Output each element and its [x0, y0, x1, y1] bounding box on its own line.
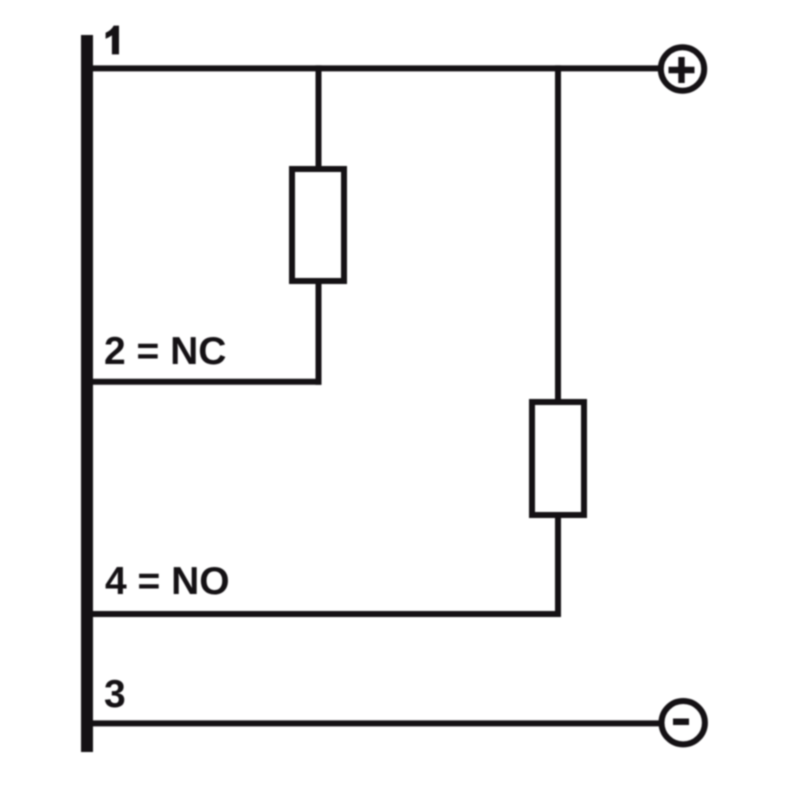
- wire junction pin1 line to NO load resistor: [555, 65, 561, 399]
- terminal strip bar: [81, 35, 93, 752]
- svg-text:2 = NC: 2 = NC: [104, 330, 226, 373]
- pin label 2 = NC: [104, 330, 226, 373]
- wire pin2: [93, 379, 322, 385]
- pin label 1: [106, 26, 119, 55]
- minus supply terminal: [662, 701, 705, 744]
- wire pin1 to plus terminal: [93, 65, 659, 71]
- svg-text:4 = NO: 4 = NO: [105, 560, 230, 603]
- plus supply terminal: [661, 47, 704, 90]
- load resistor NO branch: [532, 402, 584, 515]
- wire junction pin1 line to NC load resistor: [316, 65, 322, 166]
- pin label 4 = NO: [105, 560, 230, 603]
- pin label 3: [104, 673, 126, 716]
- wire NC resistor to pin2 line: [316, 284, 322, 385]
- wire NO resistor to pin4 line: [555, 518, 561, 617]
- wire pin4: [93, 611, 561, 617]
- wire pin3 to minus terminal: [93, 720, 659, 726]
- svg-text:3: 3: [104, 673, 126, 716]
- load resistor NC branch: [292, 169, 344, 281]
